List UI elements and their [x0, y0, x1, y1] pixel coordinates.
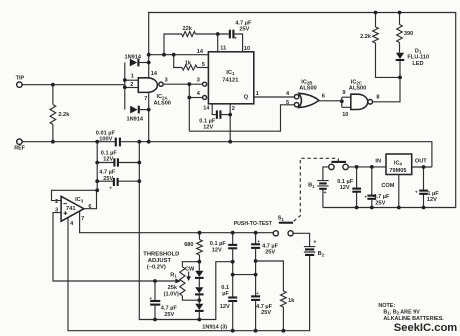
svg-text:10: 10 — [244, 46, 250, 52]
svg-text:OUT: OUT — [415, 159, 427, 165]
wire 4.7uF bridge stubs — [97, 180, 139, 182]
wire TIP input — [22, 84, 125, 86]
svg-text:IC1: IC1 — [226, 70, 235, 76]
IC2b input bubble pin 4 — [294, 95, 298, 99]
svg-text:5: 5 — [202, 62, 205, 68]
svg-text:B1: B1 — [308, 183, 315, 189]
wire 4.7uF branch middle — [255, 248, 257, 297]
wire 390 to LED — [399, 43, 401, 53]
svg-text:100V: 100V — [99, 136, 112, 142]
capacitor C 0.1uF 12V (regulator IN) — [352, 188, 361, 190]
wire 1k branch top — [256, 261, 284, 291]
wire chain bottom lead — [198, 312, 200, 320]
resistor 390 — [397, 25, 403, 43]
wire 4.7uF(155) bottom lead — [154, 305, 156, 320]
capacitor C 4.7uF 25V (lower, x=255.6) — [251, 295, 260, 297]
svg-text:1 µF: 1 µF — [427, 191, 439, 197]
wire 4.7uF(IN) branch — [371, 167, 373, 208]
svg-text:4.7 µF: 4.7 µF — [373, 194, 390, 200]
op-amp IC3 741 triangle — [61, 196, 84, 221]
wire IC2a output pin 3 to 74121 pin 3 — [163, 83, 203, 85]
svg-text:(–0.2V): (–0.2V) — [147, 264, 166, 270]
junction dots (all solder points) — [51, 11, 425, 333]
wire B1 bottom to common rail — [322, 189, 324, 208]
wire top supply rail and right edge down to common rail — [148, 13, 456, 208]
battery B2 — [304, 247, 315, 252]
terminal TIP — [17, 82, 22, 87]
svg-text:R1: R1 — [170, 272, 177, 278]
svg-text:25V: 25V — [375, 200, 385, 206]
wire upper 0.1uF branch — [232, 233, 234, 245]
svg-text:4.7 µF: 4.7 µF — [161, 306, 178, 312]
wire op-amp pin 4 to bottom battery rail — [68, 218, 310, 331]
svg-text:2: 2 — [130, 82, 133, 88]
svg-text:12V: 12V — [220, 304, 230, 310]
svg-text:2.2k: 2.2k — [58, 112, 70, 118]
svg-text:B2: B2 — [318, 251, 325, 257]
svg-text:2: 2 — [55, 199, 58, 205]
diode D 1N914 (top clamp) — [130, 59, 137, 67]
svg-text:4.7 µF: 4.7 µF — [256, 304, 273, 310]
svg-text:+: + — [256, 292, 259, 297]
svg-text:6: 6 — [322, 94, 325, 100]
wire REF rail right of 0.01uF to regulator OUT — [120, 142, 432, 167]
switch S1a contacts — [273, 231, 278, 236]
svg-text:7: 7 — [81, 216, 84, 222]
resistor 22k — [182, 31, 196, 36]
wire B1 top to S1b left contact — [323, 167, 329, 181]
IC4 79M05 regulator box — [386, 154, 412, 175]
svg-text:+: + — [234, 37, 237, 42]
svg-text:+: + — [364, 195, 367, 200]
svg-text:25V: 25V — [103, 176, 113, 182]
capacitor C 0.1uF 12V (bridge) — [113, 158, 115, 166]
diode D 1N914 chain #3 — [195, 304, 203, 310]
wire pot bottom return — [182, 296, 199, 300]
wire 390/LED branch top lead — [399, 13, 401, 25]
svg-text:5: 5 — [286, 100, 289, 106]
svg-text:THRESHOLD: THRESHOLD — [143, 251, 179, 257]
svg-text:+: + — [324, 190, 327, 196]
svg-text:IN: IN — [375, 159, 381, 165]
svg-text:11: 11 — [220, 45, 226, 51]
wire op-amp pin 2 loop — [52, 190, 98, 200]
CW arrow of pot — [188, 272, 190, 278]
wire 2.2k bottom lead — [52, 125, 54, 142]
svg-text:LED: LED — [412, 61, 423, 67]
svg-text:1: 1 — [131, 74, 134, 80]
wire 1k branch bottom — [282, 307, 284, 331]
wire 680 bottom to node A — [199, 255, 201, 262]
svg-text:74121: 74121 — [222, 78, 239, 84]
wire top clamp cathode stub — [138, 62, 148, 64]
wire S1a right contact to B2 — [293, 233, 309, 246]
wire IC2a pin 2 stub — [125, 87, 139, 89]
svg-text:CW: CW — [185, 266, 195, 272]
svg-text:SeekIC.com: SeekIC.com — [394, 322, 457, 334]
svg-text:PUSH-TO-TEST: PUSH-TO-TEST — [234, 221, 273, 227]
svg-text:12V: 12V — [203, 125, 213, 131]
wire op-amp pin 7 to lower supply rail — [80, 211, 274, 232]
svg-text:7: 7 — [144, 96, 147, 102]
wire 1k to 74121 pin 5 — [197, 67, 208, 69]
wire chain link 1 — [198, 279, 200, 288]
wire chain link 2 — [198, 295, 200, 304]
svg-text:ADJUST: ADJUST — [148, 258, 172, 264]
switch S1b contacts — [329, 164, 334, 169]
wire upper 4.7uF branch — [255, 233, 257, 245]
wire REF rail left of 0.01uF — [22, 141, 116, 143]
wire 74121 pin 11 drop — [217, 34, 219, 52]
arrowhead of wiper — [175, 279, 181, 284]
wire 22k output to pins 11/10 node — [195, 33, 230, 35]
resistor 1k (load) — [281, 291, 287, 307]
wire 74121 pin 14 bypass leg — [212, 104, 217, 115]
svg-text:25V: 25V — [261, 310, 271, 316]
svg-text:+: + — [415, 190, 418, 195]
svg-text:25V: 25V — [164, 312, 174, 318]
svg-text:6: 6 — [88, 204, 91, 210]
svg-text:8: 8 — [376, 95, 379, 101]
svg-text:µF: µF — [222, 291, 229, 297]
capacitor C 0.1uF 12V (upper, x=232.7) — [228, 244, 237, 246]
svg-text:741: 741 — [66, 206, 76, 212]
capacitor C 4.7uF 25V (upper, x=255.6) — [251, 243, 260, 245]
svg-text:S1: S1 — [278, 216, 285, 222]
svg-text:B1, B2 ARE 9V: B1, B2 ARE 9V — [383, 309, 420, 315]
svg-text:14: 14 — [197, 49, 204, 55]
terminal REF — [17, 139, 22, 144]
svg-text:2.2k: 2.2k — [360, 34, 372, 40]
svg-text:3: 3 — [55, 208, 58, 214]
svg-text:680: 680 — [184, 242, 193, 248]
svg-text:Q: Q — [244, 94, 249, 100]
wire tie pins 3-4 vertical — [188, 84, 190, 131]
svg-text:14: 14 — [203, 106, 210, 112]
wire bottom clamp cathode stub — [139, 109, 149, 111]
wire IC4 COM to common rail — [398, 175, 400, 208]
wire op-amp output pin 6 loop — [84, 190, 97, 208]
capacitor C 4.7uF 25V (regulator IN) — [367, 195, 376, 197]
resistor 680 — [197, 240, 203, 256]
capacitor C 4.7uF 25V (threshold filter) — [150, 300, 160, 302]
wire right coupling bus down to bottom loop — [139, 142, 232, 320]
wire 0.1uF branch bottom — [232, 301, 234, 331]
svg-text:+: + — [149, 297, 152, 302]
resistor 2.2k (TIP to REF) — [50, 105, 56, 125]
svg-text:14: 14 — [151, 71, 158, 77]
wire 4.7uF branch bottom — [255, 300, 257, 331]
resistor 1k (74121 pin 5) — [182, 65, 197, 70]
wire feedback from IC2b pin 5 — [189, 105, 294, 131]
wire 1uF(OUT) branch — [423, 167, 425, 208]
capacitor C 4.7uF 25V (bridge) — [113, 178, 115, 186]
74121 pin 4 bubble — [203, 96, 207, 100]
svg-text:ALS00: ALS00 — [154, 101, 171, 107]
wire IC2a pin 7 ground drop to REF rail — [148, 92, 150, 141]
op-amp minus sign — [63, 203, 66, 205]
wire 4.7uF(155) top lead — [154, 281, 156, 301]
svg-text:10: 10 — [342, 112, 348, 118]
switch S1a actuator bar — [279, 222, 293, 224]
wire IC2c pin 8 output to LED node — [373, 77, 401, 101]
diode D 1N914 chain #1 — [195, 271, 203, 277]
svg-text:IC2A: IC2A — [157, 94, 168, 100]
svg-text:NOTE:: NOTE: — [378, 303, 395, 309]
svg-text:25V: 25V — [265, 249, 275, 255]
svg-text:22k: 22k — [183, 26, 193, 32]
svg-text:0.1 µF: 0.1 µF — [210, 241, 227, 247]
svg-text:390: 390 — [404, 31, 413, 37]
NAND gate IC2a body — [138, 78, 157, 93]
capacitor C 1uF 12V (regulator OUT) — [419, 190, 428, 192]
svg-text:FLU-110: FLU-110 — [407, 55, 429, 61]
wire 74121 pin-14 feed at y=54.7 — [149, 54, 209, 56]
wire 22k branch riser — [164, 34, 182, 55]
NAND gate IC2c body — [351, 94, 368, 109]
svg-text:1N914: 1N914 — [127, 117, 144, 123]
wire 2.2k pullup top lead — [375, 13, 377, 28]
svg-text:IC3: IC3 — [75, 197, 84, 203]
svg-text:79M05: 79M05 — [389, 168, 406, 174]
svg-text:4.7 µF: 4.7 µF — [99, 170, 116, 176]
wire 2.2k pullup to LED node — [376, 43, 401, 77]
svg-text:3: 3 — [165, 78, 168, 84]
svg-text:ALS00: ALS00 — [349, 86, 366, 92]
svg-text:1: 1 — [256, 91, 259, 97]
wire op-amp pin 3 to threshold wiper — [53, 213, 177, 281]
svg-text:+: + — [109, 186, 112, 191]
wire 0.1uF(IN) branch — [356, 167, 358, 208]
wire node A to pot top — [182, 262, 199, 267]
IC1 74121 box — [208, 52, 253, 104]
svg-text:1k: 1k — [288, 298, 295, 304]
wire S1b right contact to regulator IN — [348, 166, 386, 168]
svg-text:(1.0V): (1.0V) — [164, 291, 179, 297]
op-amp plus sign — [64, 211, 68, 215]
svg-text:REF: REF — [14, 145, 25, 151]
wire IC4 OUT — [412, 166, 432, 168]
wire IC2b pin 6 output to IC2c — [319, 100, 342, 102]
IC2c output bubble — [368, 100, 373, 105]
wire bridge between cap branches — [233, 274, 256, 276]
wire 74121 pin 2 / ground drop — [229, 104, 231, 142]
wire bypass cap to pin 2 drop — [220, 114, 230, 116]
capacitor C 0.1uF 12V (lower, x=232.7) — [228, 296, 237, 298]
svg-text:1N914: 1N914 — [125, 55, 142, 61]
battery B1 — [317, 181, 328, 186]
svg-text:25V: 25V — [239, 27, 249, 33]
svg-text:12V: 12V — [340, 185, 350, 191]
wire left coupling bus — [96, 142, 98, 191]
svg-text:12V: 12V — [103, 156, 113, 162]
74121 pin 3 bubble — [203, 82, 207, 86]
wire IC2a pin 1 stub — [125, 79, 139, 81]
wire 1k branch riser — [174, 55, 182, 68]
potentiometer R1 25k body — [180, 267, 185, 296]
wire IC2c tied inputs 9-10 — [342, 97, 351, 107]
capacitor C 0.01uF 100V (series in REF rail) — [115, 138, 117, 147]
LED D1 FLU-110 — [396, 53, 404, 59]
capacitor C 4.7uF 25V (timing, top) — [229, 30, 231, 39]
svg-text:+: + — [313, 239, 316, 245]
svg-text:12V: 12V — [427, 197, 437, 203]
svg-text:2: 2 — [232, 106, 235, 112]
wire timing cap to 74121 pin 10 — [233, 34, 242, 52]
svg-text:ALS00: ALS00 — [299, 86, 316, 92]
diode chain lead 1 — [198, 262, 200, 271]
NAND gate IC2a output bubble — [159, 82, 163, 86]
dashed mechanical linkage S1a-S1b — [294, 158, 338, 221]
capacitor C 0.1uF 12V (74121 bypass) — [216, 110, 218, 118]
wire vertical drop from top rail to IC2a VCC pin 14 node — [148, 13, 150, 63]
wire input clamp ladder vertical — [124, 63, 126, 110]
svg-text:1k: 1k — [185, 60, 192, 66]
wire 74121 pin 4 stub — [189, 97, 202, 99]
wire 0.1uF branch middle — [232, 248, 234, 297]
wire 0.1uF bridge stubs — [97, 162, 139, 164]
svg-text:TIP: TIP — [16, 75, 25, 81]
svg-text:+: + — [257, 240, 260, 245]
diode D 1N914 (bottom clamp) — [130, 106, 137, 114]
IC2b input bubble pin 5 — [294, 103, 298, 107]
resistor 2.2k (pullup) — [373, 27, 379, 43]
NAND gate IC2b body (OR form) — [299, 93, 319, 107]
diode D 1N914 chain #2 — [195, 287, 203, 293]
wire 2.2k top lead — [52, 85, 54, 105]
svg-text:3: 3 — [197, 78, 200, 84]
svg-text:9: 9 — [342, 90, 345, 96]
svg-text:COM: COM — [381, 183, 394, 189]
wire 74121 Q pin 1 to IC2b pin 4 — [254, 96, 295, 98]
wire 680 top lead — [199, 233, 201, 240]
svg-text:25k: 25k — [168, 285, 178, 291]
wire IC2a pin-14 VCC stub into gate top — [148, 63, 150, 78]
svg-text:1N914 (3): 1N914 (3) — [202, 324, 227, 330]
svg-text:0.1: 0.1 — [221, 285, 229, 291]
svg-text:12V: 12V — [212, 247, 222, 253]
switch S1b actuator bar — [331, 161, 346, 163]
wire LED cathode to node — [399, 60, 401, 77]
svg-text:IC4: IC4 — [394, 160, 403, 166]
